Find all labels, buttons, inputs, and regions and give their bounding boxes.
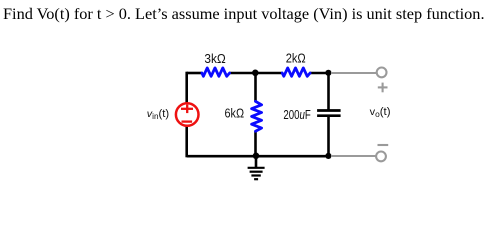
svg-text:3kΩ: 3kΩ <box>204 52 225 66</box>
svg-text:200uF: 200uF <box>283 108 311 122</box>
svg-text:2kΩ: 2kΩ <box>286 51 306 65</box>
svg-text:vin(t): vin(t) <box>147 108 169 121</box>
svg-text:6kΩ: 6kΩ <box>225 107 245 121</box>
svg-text:vo(t): vo(t) <box>370 106 391 119</box>
